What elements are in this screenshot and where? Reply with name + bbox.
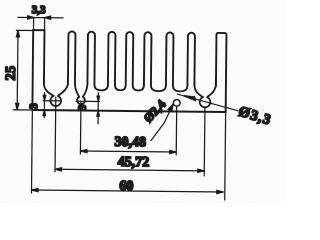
extension bottom for 25 (base bottom extended) [13, 109, 32, 111]
fin 2 [68, 31, 76, 84]
fin 6 [144, 32, 152, 85]
extension lines 3,3 [33, 18, 35, 29]
extension line from right bulb down [203, 107, 206, 175]
slot 5 bottom [133, 85, 144, 90]
heatsink left wall [32, 30, 44, 110]
bulb hole right (Phi 3,3) [200, 97, 211, 107]
svg-text:45,72: 45,72 [118, 155, 150, 170]
extension line from bulb2 down [79, 103, 82, 154]
slot 6 bottom [151, 85, 166, 91]
dimension 3 left [43, 93, 61, 118]
heatsink right wall [216, 33, 227, 112]
vertical dim line 3 left [43, 93, 45, 118]
extension line from drilled hole down [175, 107, 178, 155]
slot 2 flare left [75, 84, 80, 96]
svg-text:3: 3 [77, 104, 89, 110]
slot 7 bottom [173, 85, 188, 91]
arrow up to 110 [43, 110, 46, 115]
arrow up to 110 [97, 111, 100, 116]
dimension 30,48 [80, 149, 176, 153]
slot 3 bottom [94, 85, 108, 91]
leader Phi 2,4 [151, 104, 173, 141]
dimension 3,3 line [18, 16, 63, 30]
svg-text:25: 25 [4, 65, 19, 80]
slot 8 flare right [207, 86, 216, 97]
fin 5 [126, 32, 134, 85]
bulb hole left (Phi 3,3 channel) [50, 96, 61, 106]
drilled hole Phi 2,4 [173, 99, 180, 106]
extension line right edge down [224, 112, 227, 200]
dimension 3 middle [76, 92, 100, 123]
leader Phi 3,3 [177, 94, 238, 111]
vertical dim line 3 middle [97, 93, 99, 124]
svg-text:60: 60 [119, 179, 133, 194]
base bottom edge [32, 110, 225, 112]
slot 8 flare left [194, 86, 203, 97]
bulb hole 2 (Phi 2,4 channel) [77, 97, 85, 104]
svg-text:3: 3 [28, 103, 40, 109]
fin 7 [166, 32, 174, 85]
arrow bottom of 25 [16, 103, 19, 110]
slot 1 flare right [58, 84, 68, 96]
paper grain [0, 0, 285, 203]
arrow top of 25 [16, 30, 19, 37]
extension top for 25 [16, 29, 32, 31]
dimension 60 [32, 188, 224, 193]
arrow down to 100.8 [97, 96, 100, 101]
extension line left edge down [30, 110, 33, 193]
slot 1 flare left [44, 84, 54, 96]
center line of left bulb [43, 100, 61, 102]
fin 3 [87, 32, 95, 85]
slot 2 flare right [83, 85, 88, 97]
extension line from left bulb down [54, 97, 57, 171]
svg-text:3,3: 3,3 [32, 4, 46, 16]
svg-text:30,48: 30,48 [114, 135, 146, 150]
arrow down to 100.6 [43, 95, 46, 100]
dimension 25 line [13, 30, 33, 110]
dimension 45,72 [55, 168, 204, 173]
slot 4 bottom [115, 85, 126, 90]
center line of bulb 2 [76, 100, 99, 102]
arrow right of 3,3 [45, 16, 51, 19]
arrow left of 3,3 [28, 16, 34, 19]
fin 8 [187, 33, 195, 86]
fin 4 [108, 32, 116, 85]
